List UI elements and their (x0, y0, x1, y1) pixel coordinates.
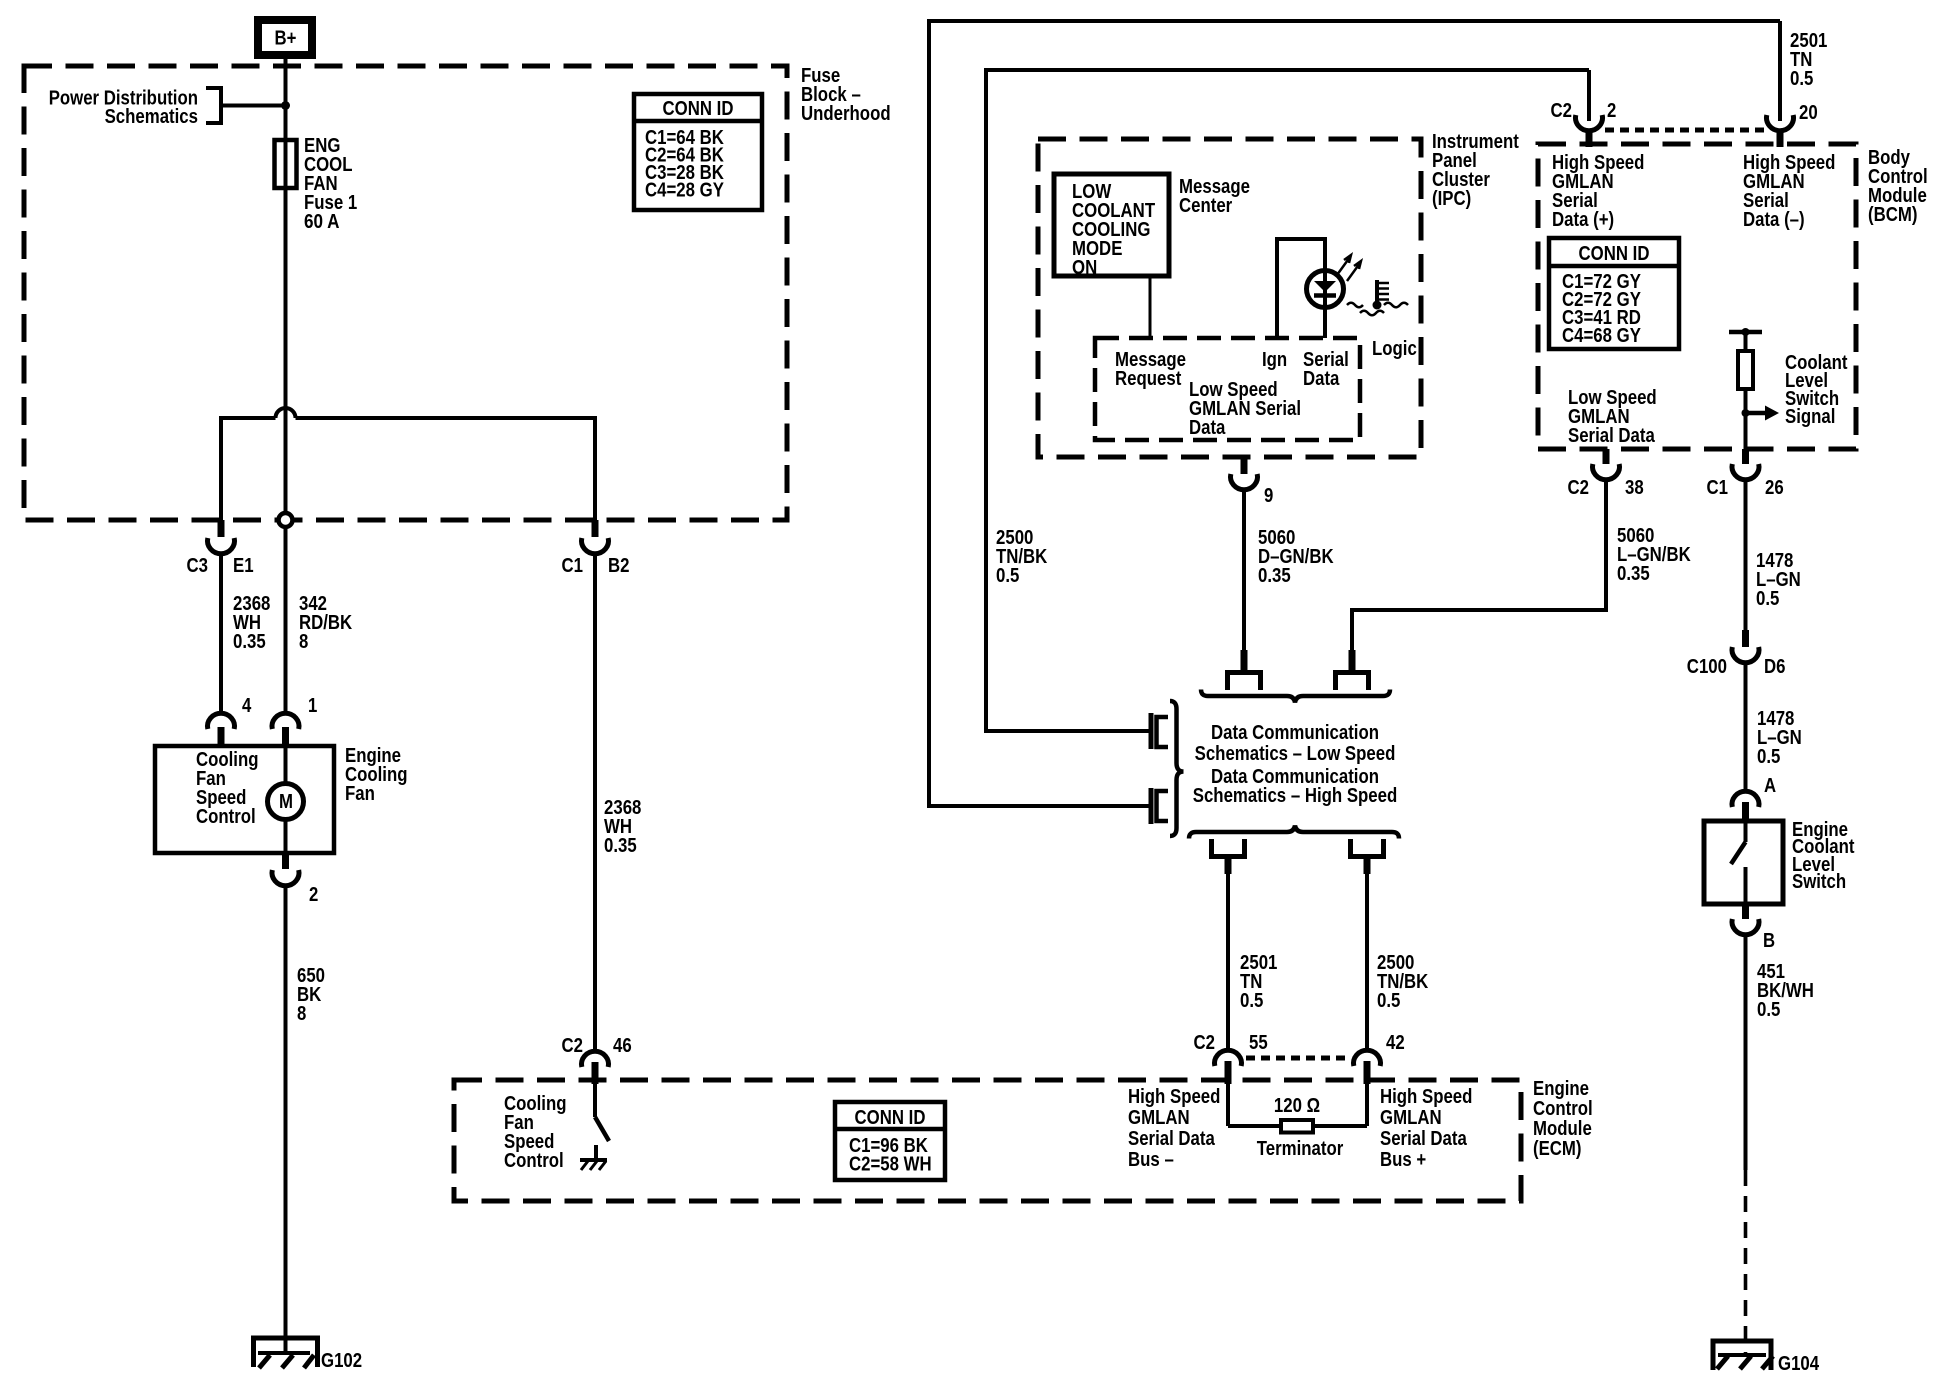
fuse ENG COOL FAN Fuse 1 60 A (275, 140, 297, 418)
wire 650 BK to ground (284, 884, 288, 1353)
svg-text:Engine: Engine (1533, 1078, 1589, 1100)
connector 42 dome (1354, 1050, 1381, 1066)
label wire 650 BK 8 (297, 965, 325, 1025)
svg-text:Request: Request (1115, 368, 1182, 390)
C2 55 stub (1225, 1061, 1232, 1084)
svg-text:46: 46 (613, 1035, 632, 1057)
label connector C3 E1 (187, 555, 254, 577)
svg-text:8: 8 (297, 1003, 306, 1025)
svg-text:C3: C3 (187, 555, 209, 577)
svg-text:Data Communication: Data Communication (1211, 722, 1379, 744)
power distribution schematics reference bracket (206, 88, 221, 123)
svg-text:B: B (1763, 930, 1775, 952)
connector pin 1 dome (272, 713, 299, 729)
svg-text:Ign: Ign (1262, 349, 1287, 371)
dotted link 55 to 42 (1246, 1056, 1350, 1061)
svg-text:B2: B2 (608, 555, 630, 577)
label terminator (1257, 1138, 1344, 1160)
wire 2501 TN (1226, 873, 1230, 1051)
connector C1 B2 cup (582, 538, 609, 554)
wire 5060 L-GN/BK (1352, 481, 1606, 651)
fan speed control switch (595, 1084, 609, 1159)
label pin 9 (1264, 485, 1273, 507)
svg-text:Data: Data (1303, 368, 1340, 390)
connector C2 46 dome (582, 1051, 609, 1067)
svg-text:0.5: 0.5 (1757, 746, 1780, 768)
label wire 2368 WH 0.35 right (604, 797, 641, 857)
label wire 1478 L-GN 0.5 lower (1757, 708, 1802, 768)
connector C1 26 stub (1742, 449, 1749, 464)
svg-text:0.5: 0.5 (1757, 999, 1780, 1021)
top terminal left (1228, 650, 1261, 690)
svg-text:Serial Data: Serial Data (1568, 425, 1656, 447)
LED arrows (1337, 255, 1361, 281)
svg-text:High Speed: High Speed (1128, 1086, 1220, 1108)
label logic (1372, 338, 1417, 360)
connector C2 38 cup (1593, 464, 1620, 480)
svg-text:Data (+): Data (+) (1552, 209, 1614, 231)
wire 2368 WH to ECM (593, 552, 597, 1051)
label fuse ENG COOL FAN Fuse 1 60 A (304, 135, 357, 233)
label ign (1262, 349, 1287, 371)
connector 9 stub (1241, 458, 1248, 474)
svg-text:0.5: 0.5 (996, 565, 1019, 587)
label engine coolant level switch (1792, 819, 1855, 893)
svg-text:M: M (279, 791, 293, 813)
engine control module ECM dashed box (454, 1080, 1521, 1201)
signal junction dot (1742, 409, 1750, 417)
grouping brace (1170, 701, 1184, 836)
42 stub (1364, 1061, 1371, 1084)
connector A stub (1742, 802, 1749, 822)
svg-text:CONN ID: CONN ID (855, 1107, 926, 1129)
wire 2500 TN/BK (1365, 873, 1369, 1051)
conn id table text fuse block (645, 98, 733, 202)
svg-text:Fan: Fan (345, 783, 375, 805)
svg-text:High Speed: High Speed (1380, 1086, 1472, 1108)
LED triangle and bar (1314, 281, 1336, 296)
switch internal ground (580, 1160, 607, 1170)
svg-text:4: 4 (242, 695, 252, 717)
label pin 1 (308, 695, 317, 717)
svg-text:55: 55 (1249, 1032, 1268, 1054)
top terminal right (1336, 650, 1369, 690)
svg-text:Control: Control (196, 806, 256, 828)
svg-text:Schematics – Low Speed: Schematics – Low Speed (1195, 743, 1396, 765)
thermometer low coolant icon (1347, 280, 1408, 315)
engine coolant level switch box (1704, 821, 1783, 904)
svg-text:Module: Module (1533, 1118, 1592, 1140)
svg-text:ON: ON (1072, 257, 1097, 279)
connector C2 38 stub (1603, 449, 1610, 464)
logic dashed box (1095, 338, 1360, 440)
instrument panel cluster dashed box (1038, 139, 1421, 457)
label wire 451 BK/WH 0.5 (1757, 961, 1814, 1021)
indicator LED circle (1307, 271, 1344, 308)
svg-text:0.35: 0.35 (604, 835, 637, 857)
svg-text:0.5: 0.5 (1240, 990, 1263, 1012)
connector B cup (1732, 919, 1759, 935)
label wire 2500 TN/BK 0.5 (1377, 952, 1429, 1012)
wire motor to pin2 (284, 820, 288, 854)
svg-text:Switch: Switch (1792, 871, 1846, 893)
svg-text:1: 1 (308, 695, 317, 717)
connector pin 2 cup (272, 870, 299, 886)
svg-text:Logic: Logic (1372, 338, 1417, 360)
wire 342 RD/BK to pin 1 (284, 527, 288, 713)
wire fuse to terminal (284, 188, 288, 513)
svg-text:Schematics – High Speed: Schematics – High Speed (1193, 785, 1398, 807)
label pin 2 (309, 884, 318, 906)
connector C3 E1 cup (208, 538, 235, 554)
svg-text:(BCM): (BCM) (1868, 204, 1918, 226)
label high speed gmlan serial data plus (1552, 152, 1644, 231)
label pin B (1763, 930, 1775, 952)
wire resistor to connector C1 26 (1744, 389, 1748, 449)
internal bus wire left (221, 418, 276, 520)
battery positive symbol B+ (258, 20, 312, 55)
svg-text:D6: D6 (1764, 656, 1786, 678)
svg-text:2: 2 (1607, 100, 1616, 122)
C2 2 stub (1586, 129, 1593, 147)
label connector C1 26 (1707, 477, 1784, 499)
internal bus wire right (296, 418, 596, 520)
top brace (1201, 690, 1390, 703)
label pin 20 (1799, 102, 1818, 124)
plug top (1151, 713, 1168, 749)
svg-text:GMLAN: GMLAN (1128, 1107, 1190, 1129)
wire B+ to fuse (284, 59, 288, 140)
terminator 120 ohm resistor (1228, 1084, 1367, 1133)
svg-text:Control: Control (504, 1150, 564, 1172)
svg-text:8: 8 (299, 631, 308, 653)
conn id table text BCM (1562, 243, 1649, 347)
pin 1 stub (282, 727, 289, 748)
bottom terminal right (1351, 839, 1384, 874)
svg-text:20: 20 (1799, 102, 1818, 124)
bottom terminal left (1212, 839, 1245, 874)
junction dot (281, 101, 290, 110)
wire 2501 to connector 20 (1778, 21, 1782, 121)
svg-text:120 Ω: 120 Ω (1274, 1095, 1320, 1117)
motor M circle (268, 784, 304, 820)
pin 4 stub (218, 727, 225, 748)
svg-text:Bus –: Bus – (1128, 1149, 1174, 1171)
svg-text:C4=28 GY: C4=28 GY (645, 180, 724, 202)
svg-text:0.5: 0.5 (1790, 68, 1813, 90)
svg-text:G104: G104 (1778, 1353, 1820, 1375)
label body control module BCM (1868, 147, 1928, 226)
label wire 5060 D-GN/BK 0.35 (1258, 527, 1334, 587)
label connector C1 B2 (562, 555, 630, 577)
ign serial data wires (1277, 239, 1325, 338)
svg-text:2: 2 (309, 884, 318, 906)
svg-text:26: 26 (1765, 477, 1784, 499)
svg-text:CONN ID: CONN ID (663, 98, 734, 120)
label wire 342 RD/BK 8 (299, 593, 353, 653)
label 120 ohm (1274, 1095, 1320, 1117)
connector A dome (1732, 791, 1759, 807)
label wire 5060 L-GN/BK 0.35 (1617, 525, 1691, 585)
svg-text:0.35: 0.35 (233, 631, 266, 653)
svg-text:C2=58 WH: C2=58 WH (849, 1154, 932, 1176)
label message center (1179, 176, 1250, 217)
label coolant level switch signal (1785, 352, 1848, 428)
svg-text:38: 38 (1625, 477, 1644, 499)
label pin A (1764, 775, 1776, 797)
coolant level switch signal tee (1729, 328, 1762, 336)
svg-text:C2: C2 (562, 1035, 584, 1057)
label power distribution schematics (49, 88, 198, 129)
label cooling fan speed control (196, 749, 259, 828)
wire 451 BK/WH (1744, 933, 1748, 1170)
wire 1478 upper (1744, 478, 1748, 630)
svg-text:Underhood: Underhood (801, 103, 891, 125)
label low speed gmlan serial data BCM (1568, 387, 1657, 447)
label wire 2501 TN 0.5 top (1790, 30, 1827, 90)
label high speed gmlan serial data minus (1743, 152, 1835, 231)
pull-up resistor (1738, 332, 1753, 389)
C2 46 stub (592, 1062, 599, 1084)
message center box LOW COOLANT COOLING MODE ON (1054, 174, 1169, 276)
label connector C2 55 (1194, 1032, 1268, 1054)
label low speed gmlan serial data IPC (1189, 379, 1301, 439)
label serial data (1303, 349, 1349, 390)
wire pin1 to motor (284, 748, 288, 784)
svg-text:C2: C2 (1551, 100, 1573, 122)
label engine control module ECM (1533, 1078, 1593, 1160)
svg-text:0.5: 0.5 (1756, 588, 1779, 610)
connector C100 D6 cup (1732, 647, 1759, 663)
label connector C2 38 (1568, 477, 1644, 499)
label instrument panel cluster IPC (1432, 131, 1519, 210)
label wire 2501 TN 0.5 (1240, 952, 1277, 1012)
bottom brace (1189, 826, 1399, 839)
low speed gmlan serial data wire 2500 (986, 70, 1589, 731)
wire 2368 WH to pin 4 (219, 552, 223, 713)
label connector C2 46 (562, 1035, 632, 1057)
fuse block underhood dashed box (24, 66, 787, 520)
svg-text:0.35: 0.35 (1258, 565, 1291, 587)
dashed wire to G104 (1744, 1170, 1748, 1354)
label connector C100 D6 (1687, 656, 1786, 678)
cooling fan module box (155, 746, 334, 853)
wire message center to logic (1149, 276, 1152, 338)
plug bottom (1151, 788, 1168, 824)
CONN ID table ECM (835, 1102, 945, 1180)
pin 2 stub (282, 853, 289, 869)
body control module BCM dashed box (1538, 144, 1856, 449)
svg-text:Schematics: Schematics (105, 106, 198, 128)
svg-text:CONN ID: CONN ID (1579, 243, 1650, 265)
label wire 1478 L-GN 0.5 upper (1756, 550, 1801, 610)
CONN ID table fuse block (634, 94, 762, 210)
svg-text:0.35: 0.35 (1617, 563, 1650, 585)
svg-text:(IPC): (IPC) (1432, 188, 1471, 210)
svg-text:C1: C1 (1707, 477, 1729, 499)
CONN ID table BCM (1549, 238, 1679, 349)
svg-text:E1: E1 (233, 555, 254, 577)
coolant level switch contacts (1731, 821, 1746, 904)
wire bracket to main feed (221, 104, 286, 108)
label high speed gmlan bus minus (1128, 1086, 1220, 1171)
svg-text:(ECM): (ECM) (1533, 1138, 1582, 1160)
wire 1478 lower (1744, 661, 1748, 790)
svg-text:Terminator: Terminator (1257, 1138, 1344, 1160)
svg-text:Center: Center (1179, 195, 1232, 217)
label connector C2 2 (1551, 100, 1617, 122)
svg-text:Control: Control (1533, 1098, 1593, 1120)
connector C1 B2 stub (592, 520, 599, 537)
label cooling fan speed control ECM (504, 1093, 567, 1172)
ground G104 (1711, 1341, 1774, 1370)
svg-text:42: 42 (1386, 1032, 1405, 1054)
svg-text:G102: G102 (321, 1350, 362, 1372)
svg-text:GMLAN: GMLAN (1380, 1107, 1442, 1129)
svg-text:Serial Data: Serial Data (1128, 1128, 1216, 1150)
connector C2 2 cup (1576, 115, 1603, 131)
label low coolant cooling mode on (1072, 181, 1155, 279)
label pin 42 (1386, 1032, 1405, 1054)
svg-text:C2: C2 (1194, 1032, 1216, 1054)
crossover hop (276, 408, 296, 418)
svg-text:Serial Data: Serial Data (1380, 1128, 1468, 1150)
label ground G104 (1778, 1353, 1820, 1375)
label wire 2500 TN/BK 0.5 left (996, 527, 1048, 587)
label ground G102 (321, 1350, 362, 1372)
svg-text:9: 9 (1264, 485, 1273, 507)
svg-text:C4=68 GY: C4=68 GY (1562, 325, 1641, 347)
connector C3 E1 stub (218, 520, 225, 537)
svg-text:Data: Data (1189, 417, 1226, 439)
label fuse block underhood (801, 65, 891, 125)
connector 9 cup (1231, 474, 1258, 490)
svg-text:Data (–): Data (–) (1743, 209, 1805, 231)
wire 5060 D-GN/BK (1242, 489, 1246, 651)
conn id table text ECM (849, 1107, 932, 1176)
connector B stub (1742, 904, 1749, 919)
label data communication schematics (1193, 722, 1398, 807)
dotted link 2 to 20 (1605, 128, 1764, 133)
signal arrow (1746, 406, 1780, 421)
svg-text:B+: B+ (275, 28, 297, 50)
wire 2500 to connector C2 2 (1587, 70, 1591, 121)
connector C2 55 dome (1215, 1050, 1242, 1066)
label engine cooling fan (345, 745, 408, 805)
connector pin 4 dome (208, 713, 235, 729)
ground G102 (251, 1338, 320, 1368)
svg-text:C100: C100 (1687, 656, 1727, 678)
svg-text:A: A (1764, 775, 1776, 797)
svg-text:C1: C1 (562, 555, 584, 577)
pass-through terminal circle (279, 513, 293, 527)
connector 20 cup (1767, 115, 1794, 131)
high speed gmlan serial data wire 2501 (929, 21, 1780, 806)
label pin 4 (242, 695, 252, 717)
label high speed gmlan bus plus (1380, 1086, 1472, 1171)
label wire 2368 WH 0.35 (233, 593, 270, 653)
connector C1 26 cup (1732, 464, 1759, 480)
svg-text:Signal: Signal (1785, 406, 1835, 428)
label motor M (279, 791, 293, 813)
svg-text:Bus +: Bus + (1380, 1149, 1426, 1171)
20 stub (1777, 129, 1784, 147)
svg-text:C2: C2 (1568, 477, 1590, 499)
svg-text:60 A: 60 A (304, 211, 340, 233)
label B+ (275, 28, 297, 50)
connector C100 D6 stub (1742, 630, 1749, 647)
label message request (1115, 349, 1186, 390)
svg-text:0.5: 0.5 (1377, 990, 1400, 1012)
